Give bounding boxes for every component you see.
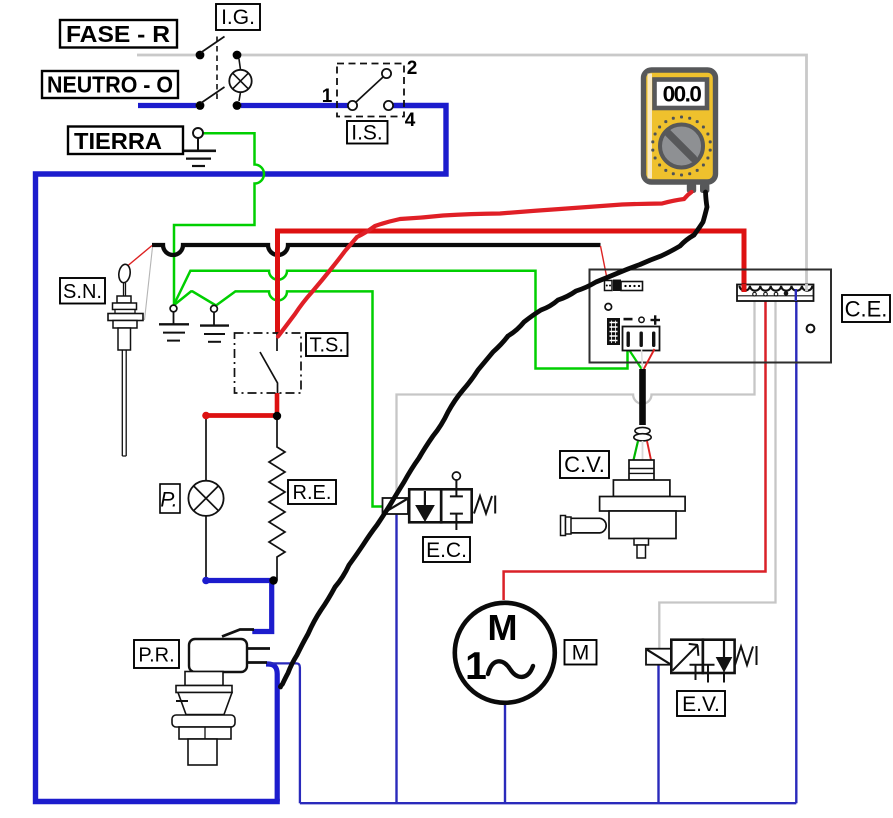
solenoid valve E.V. coil xyxy=(646,649,671,665)
svg-text:FASE - R: FASE - R xyxy=(66,21,170,47)
pressure switch P.R. body xyxy=(189,639,247,672)
label E.V. xyxy=(677,691,725,716)
solenoid valve E.C. body xyxy=(409,472,472,530)
svg-text:P.: P. xyxy=(160,489,177,512)
switch I.S. contact 4 xyxy=(384,101,393,110)
label C.V. xyxy=(560,451,609,478)
switch I.G. mechanical link (dashed) xyxy=(216,37,218,100)
label T.S. xyxy=(306,333,348,357)
sensor S.N. level probe xyxy=(108,264,143,456)
wire thin red bus end to C.E. connector xyxy=(601,246,608,281)
node blue cap at lamp bottom xyxy=(202,577,210,585)
board C.E. DIP switch xyxy=(607,318,620,345)
svg-text:M: M xyxy=(488,607,518,648)
label TIERRA xyxy=(68,127,183,155)
label FASE - R xyxy=(60,20,177,48)
label NEUTRO - O xyxy=(42,71,178,98)
thermostat T.S. contact and blade xyxy=(260,333,278,393)
node red cap at lamp top xyxy=(202,412,210,420)
svg-text:E.C.: E.C. xyxy=(426,539,467,562)
solenoid valve E.C. coil xyxy=(383,498,409,514)
cable black C.E. to C.V. xyxy=(639,369,646,425)
svg-text:TIERRA: TIERRA xyxy=(74,128,162,154)
wire thick red T.S. bottom to junction xyxy=(275,393,280,416)
svg-text:NEUTRO - O: NEUTRO - O xyxy=(47,72,173,98)
label M xyxy=(565,640,597,665)
solenoid valve E.V. body xyxy=(671,640,734,683)
svg-text:1: 1 xyxy=(465,645,487,688)
svg-text:T.S.: T.S. xyxy=(309,335,343,357)
svg-text:E.V.: E.V. xyxy=(682,693,720,716)
lamp P. xyxy=(188,481,223,516)
test lead red multimeter to T.S. xyxy=(278,192,692,337)
wire thin red C.E. terminal to motor M xyxy=(504,296,766,600)
node green terminal 1 xyxy=(170,305,177,312)
thermostat T.S. box (dash-dot) xyxy=(235,333,302,393)
node junction T.S./R.E./P. xyxy=(273,412,281,420)
motor 1~ text xyxy=(465,645,533,688)
wire blue E.C. coil to bottom bus xyxy=(395,514,397,803)
board C.E. top connector xyxy=(605,280,643,292)
lamp P. leads xyxy=(205,416,207,581)
label P. xyxy=(160,484,180,513)
terminal TIERRA xyxy=(193,128,203,150)
wire green TIERRA to ground network xyxy=(174,133,264,305)
wire red connector pin to black cable xyxy=(644,349,655,370)
switch I.S. contact 2 xyxy=(382,69,391,78)
wire gray stub into terminal block xyxy=(805,284,808,291)
wire red stub into terminal block xyxy=(742,284,747,292)
wire gray C.E. to E.V. coil xyxy=(659,296,775,649)
flow meter C.V. stack xyxy=(600,460,686,539)
label S.N. xyxy=(60,278,105,304)
multimeter display 00.0 xyxy=(655,80,708,109)
flow meter C.V. bottom stub xyxy=(634,539,649,559)
wire thin gray S.N. body lead xyxy=(145,247,153,320)
wire green rail upper (to C.E. connector minus) xyxy=(174,271,628,369)
board C.E. 3-pin connector with - o + labels xyxy=(623,315,661,350)
node junction R.E. bottom xyxy=(269,576,277,584)
multimeter dial dots xyxy=(651,116,711,177)
svg-text:2: 2 xyxy=(407,58,418,79)
board C.E. hole left xyxy=(605,304,612,311)
svg-text:P.R.: P.R. xyxy=(138,645,174,667)
wire green rail lower (to E.C. coil) xyxy=(174,291,384,506)
motor M circle xyxy=(455,603,555,703)
svg-text:C.V.: C.V. xyxy=(564,452,605,477)
node green terminal 2 xyxy=(211,305,218,312)
svg-text:I.G.: I.G. xyxy=(221,6,255,29)
svg-text:R.E.: R.E. xyxy=(293,482,332,504)
ground under terminal 1 xyxy=(159,312,189,341)
switch I.G. upper pole contacts xyxy=(196,37,242,60)
wire thick blue riser bottom bus to P.R. lower terminal xyxy=(266,664,277,802)
svg-text:00.0: 00.0 xyxy=(663,82,702,107)
label R.E. xyxy=(288,480,336,504)
svg-text:C.E.: C.E. xyxy=(845,297,888,322)
wire FASE gray from I.G. to C.E. terminal (net R) xyxy=(241,55,807,291)
resistor R.E. zigzag xyxy=(269,420,285,581)
wire thick blue lamp/resistor bottom to P.R. upper terminal xyxy=(206,581,272,632)
flow meter C.V. side pipe xyxy=(561,516,607,536)
test lead black multimeter to P.R. xyxy=(280,192,707,687)
switch I.G. lower pole contacts xyxy=(196,87,242,110)
wire thick red T.S. to C.E. terminal block xyxy=(278,231,745,333)
wire blue C.E. terminal to bottom bus xyxy=(795,289,797,803)
ground TIERRA xyxy=(181,151,216,166)
bus thick black phase distribution with hops xyxy=(152,245,601,255)
label I.G. xyxy=(216,4,260,30)
terminal block on C.E. xyxy=(737,285,814,302)
board C.E. hole right xyxy=(807,325,815,333)
wire blue motor M to bottom bus xyxy=(504,704,506,803)
wire blue E.V. coil to bottom bus xyxy=(657,665,659,804)
pressure switch P.R. lower body xyxy=(172,672,235,766)
flow meter C.V. connector and body xyxy=(634,427,651,441)
wire thin blue bottom bus xyxy=(300,802,796,804)
label C.E. xyxy=(842,295,890,322)
wire blue I.S. terminal 4 down left side to bottom bus xyxy=(36,106,447,802)
switch I.S. dashed box xyxy=(337,64,404,117)
label P.R. xyxy=(134,640,179,668)
label E.C. xyxy=(423,537,470,562)
wire thin blue P.R. second terminal to bottom bus xyxy=(267,663,300,803)
svg-text:4: 4 xyxy=(405,110,416,131)
pressure switch P.R. terminals xyxy=(222,630,270,663)
wire white connector middle pin to black cable xyxy=(642,349,643,369)
multimeter rotary dial xyxy=(660,125,703,168)
svg-text:I.S.: I.S. xyxy=(351,122,383,145)
svg-text:1: 1 xyxy=(322,86,333,107)
label I.S. xyxy=(347,121,388,145)
pin label 2 xyxy=(407,58,418,79)
multimeter probe sockets xyxy=(687,183,710,193)
svg-text:S.N.: S.N. xyxy=(63,281,102,303)
wire green connector pin to black cable xyxy=(629,349,643,370)
multimeter body xyxy=(644,70,716,182)
wire blue I.G. to I.S. terminal 1 xyxy=(241,103,348,108)
wire thick red junction to lamp P. xyxy=(206,413,277,418)
wire thin red bus end to S.N. terminal xyxy=(128,246,152,266)
motor M text xyxy=(488,607,518,648)
switch I.S. contact 1 xyxy=(348,101,357,110)
switch I.S. blade xyxy=(356,77,384,103)
wire FASE gray from label to I.G. xyxy=(137,54,196,57)
pin label 4 xyxy=(405,110,416,131)
board C.E. outline xyxy=(590,270,832,363)
wire blue stub inside terminal block xyxy=(795,289,797,301)
ground under terminal 2 xyxy=(200,312,229,342)
svg-text:M: M xyxy=(572,642,590,665)
wire gray C.E. to E.C. coil xyxy=(397,296,755,498)
pin label 1 xyxy=(322,86,333,107)
flow meter C.V. wires green white red xyxy=(634,441,652,460)
lamp inside I.G. xyxy=(229,59,251,101)
spring E.C. xyxy=(474,496,495,514)
spring E.V. xyxy=(735,646,757,665)
wire NEUTRO blue from label to I.G. xyxy=(138,103,196,108)
